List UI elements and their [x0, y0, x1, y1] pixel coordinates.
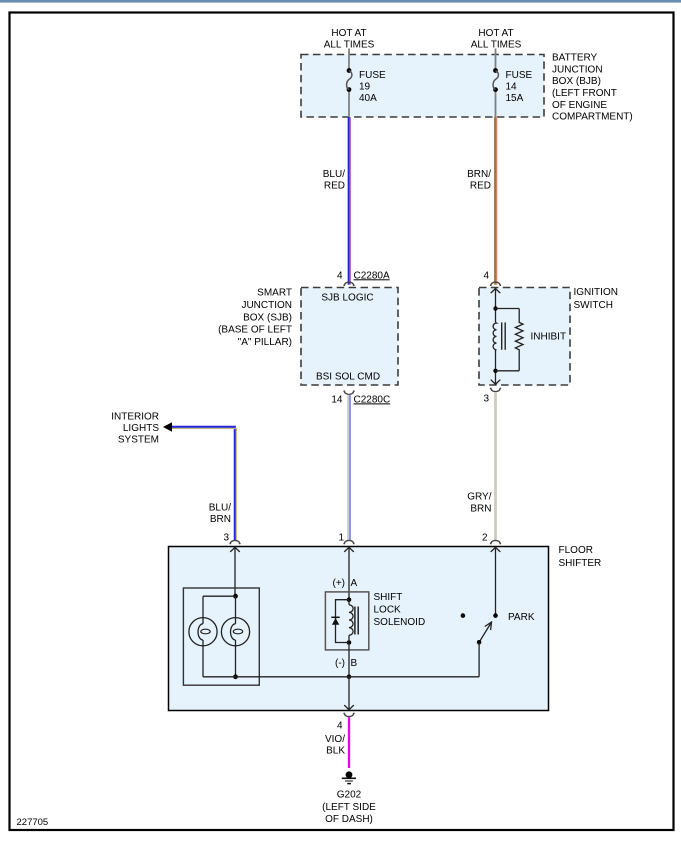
svg-text:BOX (BJB): BOX (BJB): [552, 76, 601, 87]
lamp 2: [221, 618, 249, 646]
svg-text:4: 4: [337, 720, 343, 731]
wire solenoid rail to pin 4: [344, 677, 354, 710]
svg-text:SOLENOID: SOLENOID: [374, 617, 426, 628]
wire BLU/RED: [349, 117, 351, 285]
svg-text:A: A: [351, 578, 358, 589]
svg-text:BATTERY: BATTERY: [552, 53, 598, 64]
svg-text:(BASE OF LEFT: (BASE OF LEFT: [218, 325, 292, 336]
arrow to interior lights system: [163, 422, 172, 431]
label IGNITION SWITCH: [574, 287, 618, 311]
svg-text:14: 14: [331, 394, 343, 405]
svg-text:JUNCTION: JUNCTION: [552, 64, 603, 75]
svg-text:C2280A: C2280A: [354, 270, 390, 281]
svg-text:SWITCH: SWITCH: [574, 300, 613, 311]
label BLU/RED: [323, 169, 345, 192]
svg-text:LOCK: LOCK: [374, 605, 402, 616]
svg-text:OF DASH): OF DASH): [325, 814, 373, 825]
wire lamp network: [203, 594, 238, 679]
label (+) A: [333, 578, 358, 589]
wire pin 1 entry: [344, 547, 354, 600]
park switch: [461, 613, 498, 677]
svg-text:FUSE: FUSE: [359, 70, 386, 81]
label BSI SOL CMD: [316, 371, 380, 382]
shift lock solenoid box: [325, 592, 368, 650]
svg-text:SYSTEM: SYSTEM: [118, 435, 159, 446]
svg-text:(LEFT FRONT: (LEFT FRONT: [552, 88, 617, 99]
ignition switch box: [479, 288, 570, 386]
label GRY/BRN: [467, 491, 491, 514]
label BLU/BRN: [209, 503, 231, 526]
label PARK: [508, 612, 535, 623]
svg-text:B: B: [351, 658, 358, 669]
wire BLU/BRN to interior lights: [170, 427, 236, 542]
connector floor shifter pin 2: [490, 540, 501, 543]
connector ignition switch pin 4: [483, 270, 501, 285]
svg-text:SHIFT: SHIFT: [374, 592, 403, 603]
connector floor shifter pin 3: [229, 540, 240, 543]
smart junction box (SJB): [301, 288, 398, 386]
title bar: [0, 0, 681, 3]
diode D1: [331, 600, 349, 643]
svg-text:BLU/: BLU/: [209, 503, 231, 514]
label (-) B: [335, 658, 358, 669]
svg-text:BOX (SJB): BOX (SJB): [243, 312, 292, 323]
svg-text:COMPARTMENT): COMPARTMENT): [552, 112, 633, 123]
wire ignition internal: [491, 288, 520, 384]
svg-text:14: 14: [506, 82, 518, 93]
label BATTERY JUNCTION BOX (BJB): [552, 53, 633, 123]
solenoid coil: [347, 597, 359, 644]
svg-text:FUSE: FUSE: [506, 70, 533, 81]
label HOT AT ALL TIMES (left): [324, 28, 375, 51]
label pin 1: [338, 533, 344, 544]
connector floor shifter pin 4: [337, 713, 355, 731]
svg-text:(LEFT SIDE: (LEFT SIDE: [322, 802, 376, 813]
connector ignition switch pin 3: [483, 388, 501, 404]
svg-text:INTERIOR: INTERIOR: [111, 412, 159, 423]
svg-text:VIO/: VIO/: [325, 734, 345, 745]
connector floor shifter pin 1: [343, 540, 354, 543]
fuse 19 40A: [347, 68, 386, 104]
svg-text:227705: 227705: [17, 817, 49, 828]
svg-text:BRN: BRN: [210, 514, 231, 525]
label BRN/RED: [467, 169, 491, 192]
svg-text:SHIFTER: SHIFTER: [559, 558, 602, 569]
svg-text:RED: RED: [324, 181, 345, 192]
label INHIBIT: [531, 331, 567, 342]
svg-text:JUNCTION: JUNCTION: [241, 300, 292, 311]
svg-text:FLOOR: FLOOR: [559, 545, 593, 556]
label VIO/BLK: [325, 734, 345, 756]
svg-text:1: 1: [338, 533, 344, 544]
svg-text:C2280C: C2280C: [354, 394, 391, 405]
wire fuse 14 to BJB bottom: [495, 90, 497, 117]
svg-text:(-): (-): [335, 658, 345, 669]
svg-text:BSI SOL CMD: BSI SOL CMD: [316, 371, 380, 382]
svg-text:SJB LOGIC: SJB LOGIC: [321, 292, 373, 303]
lamp 1: [189, 618, 217, 646]
svg-text:OF ENGINE: OF ENGINE: [552, 100, 607, 111]
label SMART JUNCTION BOX (SJB): [218, 288, 292, 348]
label SHIFT LOCK SOLENOID: [374, 592, 426, 628]
svg-text:40A: 40A: [359, 93, 377, 104]
svg-text:19: 19: [359, 82, 371, 93]
lamp assembly box: [183, 588, 259, 685]
svg-text:2: 2: [482, 533, 488, 544]
svg-text:SMART: SMART: [257, 288, 292, 299]
wire solenoid B to rail: [347, 643, 352, 680]
svg-text:PARK: PARK: [508, 612, 535, 623]
svg-text:HOT AT: HOT AT: [331, 28, 366, 39]
svg-text:15A: 15A: [506, 93, 524, 104]
label FLOOR SHIFTER: [559, 545, 602, 569]
svg-text:BRN/: BRN/: [467, 169, 491, 180]
wire SJB to floor shifter (lavender): [348, 395, 350, 541]
wire feed to fuse 19: [348, 49, 350, 71]
svg-text:BLK: BLK: [326, 745, 345, 756]
wire GRY/BRN: [494, 392, 497, 541]
svg-text:GRY/: GRY/: [467, 491, 491, 502]
inhibit coil: [493, 322, 505, 349]
wire bottom rail: [203, 676, 479, 678]
svg-text:BRN: BRN: [470, 504, 491, 515]
svg-text:INHIBIT: INHIBIT: [531, 331, 567, 342]
connector C2280C pin 14: [331, 391, 390, 405]
svg-text:HOT AT: HOT AT: [478, 28, 513, 39]
svg-text:BLU/: BLU/: [323, 169, 345, 180]
wire fuse 19 to BJB bottom: [348, 90, 350, 117]
label SJB LOGIC: [321, 292, 373, 303]
svg-text:(+): (+): [333, 578, 346, 589]
label pin 3: [223, 533, 229, 544]
svg-text:IGNITION: IGNITION: [574, 287, 618, 298]
inhibit resistor: [515, 309, 523, 371]
svg-text:4: 4: [337, 270, 343, 281]
ground G202: [342, 771, 356, 783]
diagram number: [17, 817, 49, 828]
svg-text:LIGHTS: LIGHTS: [123, 423, 159, 434]
connector C2280A pin 4: [337, 270, 390, 285]
svg-text:G202: G202: [337, 790, 362, 801]
wire BRN/RED: [495, 117, 497, 285]
label HOT AT ALL TIMES (right): [471, 28, 522, 51]
svg-text:3: 3: [483, 394, 489, 405]
wire feed to fuse 14: [495, 49, 497, 71]
wire VIO/BLK: [348, 717, 350, 768]
floor shifter box: [169, 547, 549, 711]
label pin 2: [482, 533, 488, 544]
battery junction box (BJB): [301, 55, 544, 118]
svg-text:3: 3: [223, 533, 229, 544]
svg-text:4: 4: [483, 270, 489, 281]
svg-text:"A" PILLAR): "A" PILLAR): [238, 337, 292, 348]
label G202 (LEFT SIDE OF DASH): [322, 790, 376, 825]
fuse 14 15A: [493, 68, 532, 104]
wire pin 2 entry: [491, 547, 501, 615]
wire pin 3 entry: [230, 547, 240, 596]
svg-text:RED: RED: [470, 181, 491, 192]
label INTERIOR LIGHTS SYSTEM: [111, 412, 159, 446]
